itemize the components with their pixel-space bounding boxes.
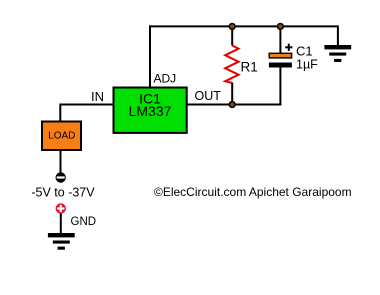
- terminal plus: [56, 203, 66, 213]
- wire LOAD top lead: [59, 104, 61, 122]
- svg-text:-5V to -37V: -5V to -37V: [31, 186, 95, 200]
- wire IN horizontal: [60, 104, 112, 106]
- resistor R1: [225, 46, 238, 84]
- IC1 LM337 regulator box: [114, 88, 187, 133]
- LOAD box: [42, 122, 81, 151]
- wire R1 top lead: [231, 26, 233, 45]
- svg-text:C1: C1: [296, 44, 313, 59]
- node C (OUT junction at R1 bottom): [229, 102, 235, 108]
- svg-text:R1: R1: [241, 60, 258, 75]
- wire ground lead right: [337, 26, 339, 45]
- wire C1 bottom lead: [279, 67, 281, 106]
- svg-text:LOAD: LOAD: [48, 130, 75, 141]
- node A (R1 top junction): [229, 24, 235, 30]
- wire R1 bottom lead: [231, 83, 233, 105]
- capacitor C1 bottom plate: [269, 63, 292, 68]
- wire ADJ vertical: [149, 25, 151, 87]
- svg-text:ADJ: ADJ: [154, 72, 177, 86]
- capacitor C1 top plate: [269, 53, 291, 58]
- node B (C1 top junction): [278, 24, 284, 30]
- ground (bottom left): [48, 233, 75, 250]
- wire OUT horizontal: [188, 104, 282, 106]
- svg-text:IN: IN: [91, 89, 104, 104]
- wire C1 top lead: [279, 26, 281, 53]
- wire top rail from ADJ branch to ground: [149, 25, 339, 27]
- svg-text:GND: GND: [71, 216, 97, 228]
- svg-text:©ElecCircuit.com Apichet Garai: ©ElecCircuit.com Apichet Garaipoom: [154, 185, 352, 199]
- svg-text:OUT: OUT: [195, 89, 222, 103]
- wire GND lead: [60, 214, 62, 234]
- terminal minus: [56, 172, 66, 182]
- svg-text:LM337: LM337: [129, 103, 172, 119]
- svg-text:1µF: 1µF: [296, 58, 318, 72]
- ground (top right): [324, 45, 351, 62]
- capacitor C1 plus sign: [285, 44, 292, 51]
- wire LOAD bottom lead: [60, 150, 62, 173]
